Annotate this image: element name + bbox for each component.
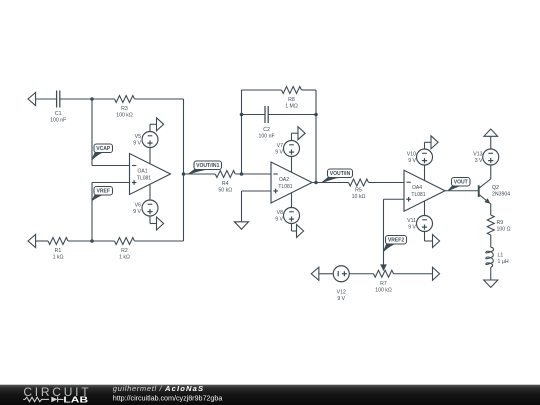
svg-text:1 kΩ: 1 kΩ	[53, 255, 64, 261]
svg-text:VREF2: VREF2	[388, 238, 404, 244]
svg-text:R4: R4	[222, 181, 229, 187]
svg-text:V10: V10	[407, 152, 416, 158]
svg-text:V13: V13	[473, 152, 482, 158]
svg-text:OA4: OA4	[412, 185, 422, 191]
svg-text:1 MΩ: 1 MΩ	[285, 104, 298, 110]
svg-text:9 V: 9 V	[337, 296, 345, 302]
svg-text:100 nF: 100 nF	[50, 118, 66, 124]
svg-text:R5: R5	[355, 187, 362, 193]
svg-text:100 kΩ: 100 kΩ	[375, 287, 392, 293]
svg-text:3 V: 3 V	[475, 158, 483, 164]
svg-text:R8: R8	[288, 97, 295, 103]
svg-text:1 µH: 1 µH	[498, 259, 509, 265]
svg-text:VREF: VREF	[97, 189, 110, 195]
svg-text:R1: R1	[55, 248, 62, 254]
svg-text:VOUT: VOUT	[454, 180, 469, 186]
svg-text:100 nF: 100 nF	[259, 134, 275, 140]
svg-text:http://circuitlab.com/cyzj8r9b: http://circuitlab.com/cyzj8r9b72gba	[113, 394, 224, 403]
svg-text:L1: L1	[498, 252, 504, 258]
svg-text:V7: V7	[277, 143, 283, 149]
svg-text:9 V: 9 V	[133, 209, 141, 215]
svg-text:V6: V6	[135, 203, 141, 209]
svg-text:10 kΩ: 10 kΩ	[352, 194, 366, 200]
svg-text:C1: C1	[55, 111, 62, 117]
svg-text:VOUT/IN: VOUT/IN	[330, 171, 351, 177]
svg-text:R2: R2	[121, 248, 128, 254]
svg-text:V8: V8	[277, 210, 283, 216]
svg-text:VOUT/IN1: VOUT/IN1	[196, 163, 219, 169]
svg-text:TL081: TL081	[137, 175, 151, 181]
svg-text:V12: V12	[337, 290, 346, 296]
svg-text:LAB: LAB	[63, 396, 88, 405]
svg-text:100 Ω: 100 Ω	[497, 226, 511, 232]
svg-text:Q2: Q2	[492, 185, 499, 191]
svg-text:9 V: 9 V	[275, 150, 283, 156]
svg-text:R7: R7	[380, 281, 387, 287]
svg-text:VCAP: VCAP	[96, 146, 111, 152]
svg-text:9 V: 9 V	[133, 141, 141, 147]
svg-text:2N3904: 2N3904	[492, 192, 510, 198]
svg-text:TL081: TL081	[411, 192, 425, 198]
svg-text:guilhermetl / AcIoNaS: guilhermetl / AcIoNaS	[113, 384, 204, 393]
svg-text:1 kΩ: 1 kΩ	[119, 255, 130, 261]
svg-text:50 kΩ: 50 kΩ	[218, 188, 232, 194]
svg-text:OA1: OA1	[137, 168, 147, 174]
svg-text:R9: R9	[497, 220, 504, 226]
svg-text:V11: V11	[407, 218, 416, 224]
svg-text:R3: R3	[121, 106, 128, 112]
svg-text:9 V: 9 V	[408, 225, 416, 231]
svg-text:OA2: OA2	[279, 177, 289, 183]
svg-text:100 kΩ: 100 kΩ	[116, 113, 133, 119]
svg-text:C2: C2	[263, 127, 270, 133]
svg-text:9 V: 9 V	[275, 217, 283, 223]
svg-text:TL081: TL081	[278, 184, 292, 190]
svg-text:9 V: 9 V	[408, 158, 416, 164]
svg-text:V5: V5	[135, 134, 141, 140]
